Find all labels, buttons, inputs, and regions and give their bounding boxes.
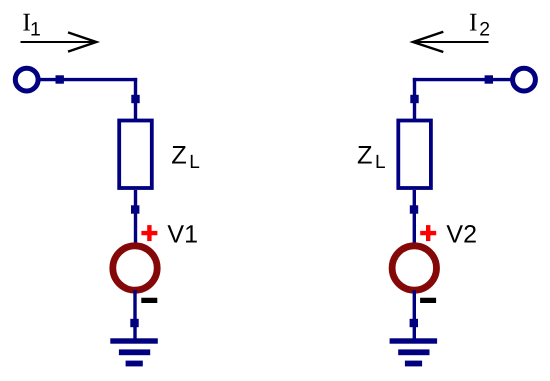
voltage source V2 (392, 246, 436, 290)
wire (corner to P2, horizontal) (413, 78, 511, 81)
wire junction on horizontal wire (right) (485, 75, 493, 83)
minus sign of V1 (141, 298, 157, 303)
minus sign of V2 (420, 298, 436, 303)
port terminal P2 (513, 68, 536, 91)
current arrow I1 (21, 32, 97, 51)
ground (left) (110, 338, 158, 366)
plus sign of V2 (420, 225, 436, 241)
svg-text:V2: V2 (446, 220, 477, 248)
wire (ZL to source V1) (134, 190, 137, 244)
wire (corner down to ZL, vertical) (134, 78, 137, 120)
wire junction below ZL (131, 205, 139, 213)
svg-text:I: I (469, 7, 478, 36)
svg-text:L: L (189, 152, 200, 173)
label ZL (right) (357, 142, 386, 173)
impedance ZL (right) (398, 121, 431, 189)
wire (P1 to corner, horizontal) (40, 78, 138, 81)
label I1 (22, 7, 40, 40)
label I2 (469, 7, 490, 40)
svg-text:1: 1 (30, 19, 41, 41)
wire (corner down to ZL, vertical, right) (413, 78, 416, 120)
ground (right) (390, 338, 438, 366)
wire (V1 to ground) (133, 290, 136, 339)
label ZL (left) (171, 142, 200, 173)
svg-text:Z: Z (357, 142, 373, 170)
current arrow I2 (413, 32, 489, 52)
wire junction above ground (right) (410, 319, 418, 327)
svg-text:Z: Z (171, 142, 187, 170)
wire junction on horizontal wire (56, 75, 64, 83)
wire (V2 to ground) (413, 290, 416, 339)
wire junction above ZL (right) (410, 95, 418, 103)
wire (ZL to source V2) (413, 190, 416, 244)
port terminal P1 (15, 68, 38, 91)
wire junction above ZL (131, 95, 139, 103)
voltage source V1 (113, 246, 157, 290)
svg-text:2: 2 (479, 19, 490, 41)
svg-text:L: L (375, 152, 386, 173)
impedance ZL (left) (119, 121, 152, 189)
svg-text:V1: V1 (167, 220, 198, 248)
wire junction below ZL (right) (410, 205, 418, 213)
wire junction above ground (left) (130, 319, 138, 327)
plus sign of V1 (141, 225, 157, 241)
